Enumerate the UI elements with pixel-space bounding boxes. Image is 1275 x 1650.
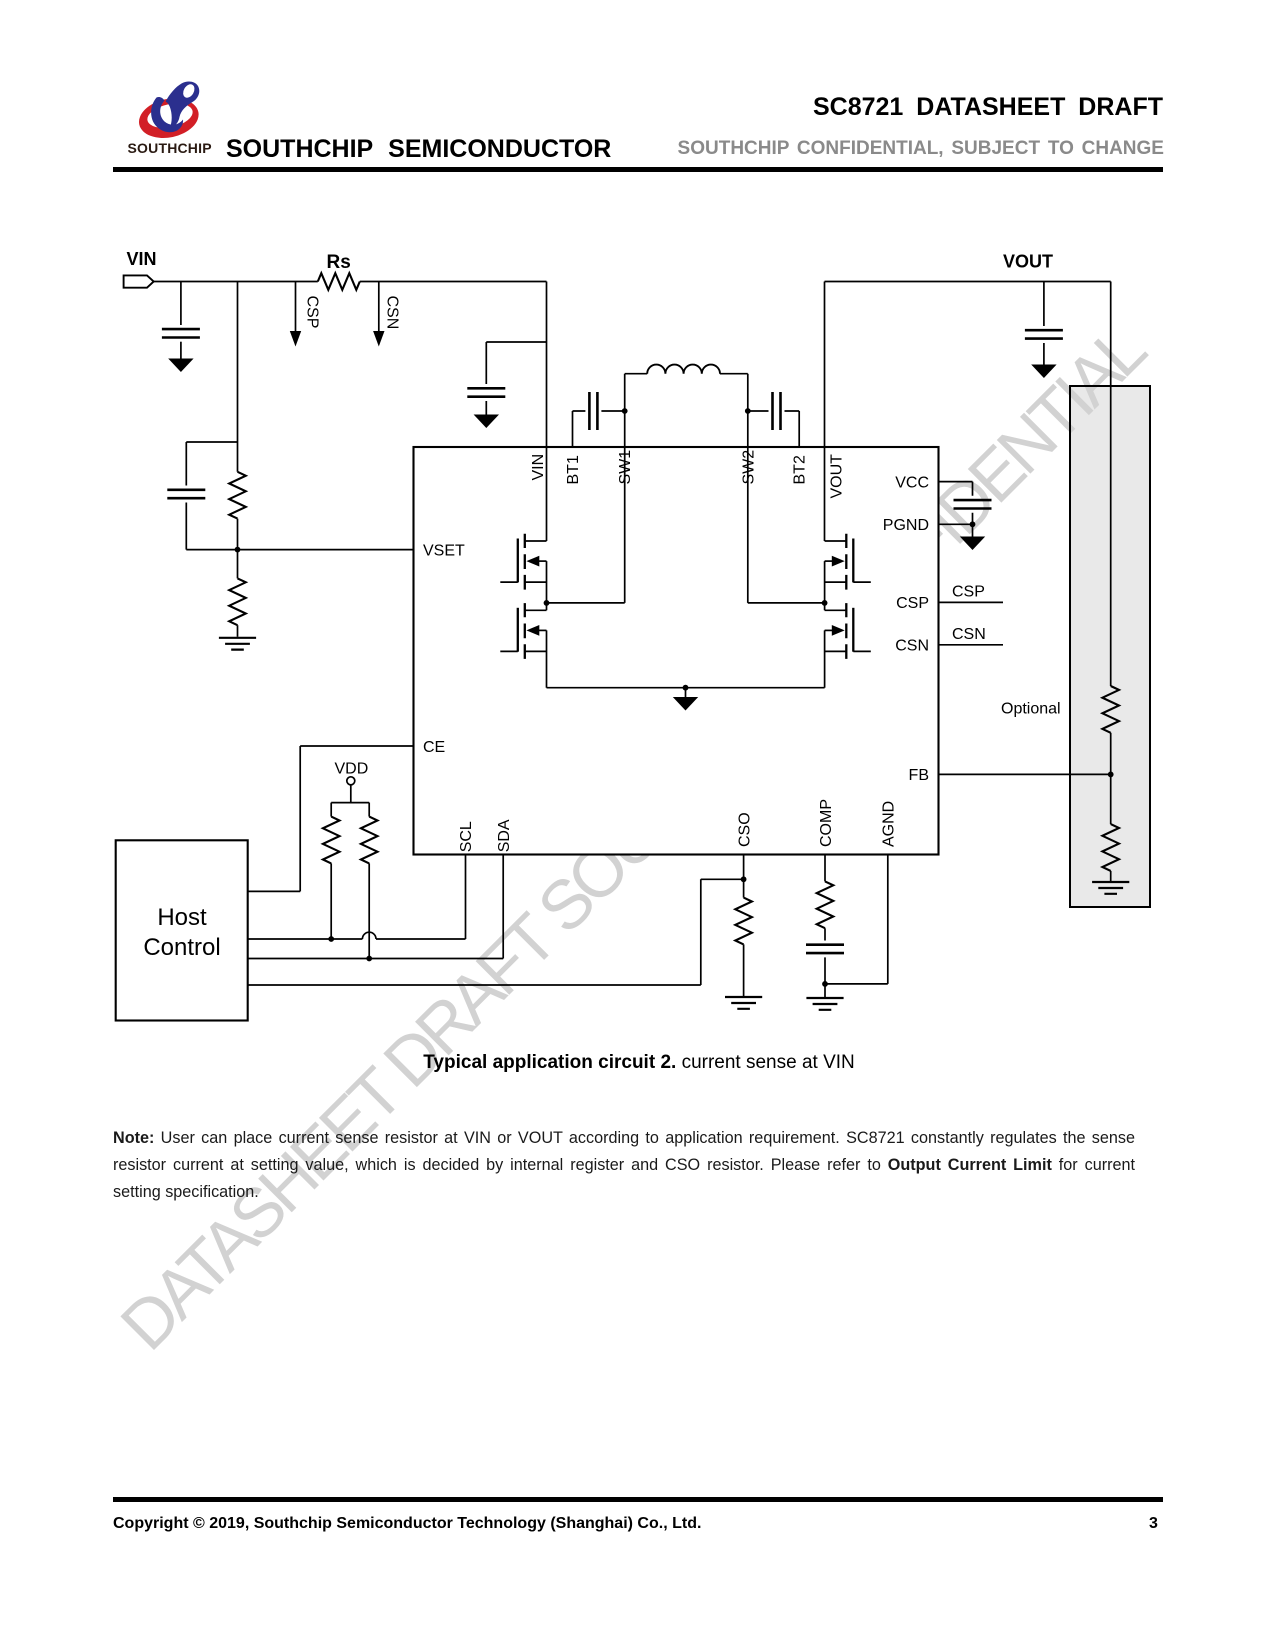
doc title: [0, 93, 1163, 122]
svg-text:VCC: VCC: [895, 474, 929, 491]
svg-text:Rs: Rs: [327, 252, 351, 273]
capacitor CB1: [589, 392, 597, 430]
CSN sense arrow: [378, 282, 380, 332]
figure caption: [0, 1052, 1275, 1074]
wire VIN to IC with decoupling branch: [486, 282, 546, 542]
ground (earth) CSO: [725, 997, 762, 1009]
VIN input terminal: [124, 275, 154, 287]
resistor VSET upper R1: [237, 442, 239, 578]
wire right FET bus: [824, 561, 826, 688]
transistor Q4 (lower right): [825, 609, 847, 611]
wire VCC decouple: [938, 482, 973, 525]
resistor pullup SCL R5: [330, 803, 332, 817]
ground (earth) below R2: [219, 638, 256, 650]
resistor COMP R8: [817, 881, 834, 928]
svg-text:CSN: CSN: [952, 626, 986, 643]
header rule: [113, 167, 1163, 172]
node VSET junction: [235, 547, 241, 553]
capacitor C4 (VCC): [954, 500, 992, 508]
wire CSP stub: [938, 601, 1003, 603]
resistor Rs: [318, 273, 360, 290]
svg-text:CSP: CSP: [896, 595, 929, 612]
svg-text:CSP: CSP: [952, 583, 985, 600]
wire CE: [248, 746, 414, 891]
wire SW2 riser: [747, 374, 749, 447]
ground (arrow) internal: [685, 688, 687, 697]
wire VOUT rail: [825, 282, 1111, 542]
svg-text:SW2: SW2: [740, 450, 757, 485]
node SW2 internal: [748, 447, 825, 603]
svg-text:VDD: VDD: [335, 761, 369, 778]
node SW1 internal: [547, 447, 625, 603]
ground (arrow) for C2: [474, 415, 499, 429]
svg-text:VOUT: VOUT: [829, 454, 846, 499]
company logo emblem: [135, 76, 215, 142]
host control box: [116, 840, 248, 1020]
wire CSN stub: [938, 644, 1003, 646]
svg-text:PGND: PGND: [883, 517, 929, 534]
node FB junction: [1108, 772, 1114, 778]
ground (earth) COMP: [806, 998, 843, 1010]
wire SDA: [248, 855, 504, 959]
svg-text:VIN: VIN: [530, 454, 547, 481]
node VCC/PGND junction: [970, 521, 976, 527]
transistor Q2 (lower left): [525, 609, 547, 611]
svg-text:CSP: CSP: [304, 296, 321, 329]
logo blue crescent drop: [151, 97, 183, 132]
wire BT1 bootstrap: [573, 411, 625, 447]
node SW2/CB2 junction: [745, 408, 751, 414]
svg-text:Control: Control: [143, 934, 220, 961]
node SW1/CB1 junction: [622, 408, 628, 414]
capacitor output C5: [1043, 282, 1045, 365]
wire host to CSO: [248, 879, 744, 985]
wire VSET branch: [186, 282, 413, 550]
svg-text:VOUT: VOUT: [1003, 251, 1053, 271]
svg-text:CSN: CSN: [895, 638, 929, 655]
logo wordmark SOUTHCHIP: [128, 140, 238, 156]
svg-text:VIN: VIN: [127, 249, 157, 269]
wire COMP pin: [824, 855, 826, 882]
capacitor input C1: [180, 282, 182, 326]
note paragraph: [113, 1125, 1135, 1207]
svg-text:Host: Host: [157, 904, 207, 931]
ground (earth) divider: [1092, 882, 1129, 894]
resistor VSET lower R2: [229, 578, 246, 625]
wire VOUT to divider: [1110, 282, 1112, 687]
confidential subtitle: [0, 138, 1164, 160]
svg-text:SDA: SDA: [496, 819, 513, 852]
resistor CSO R7: [735, 898, 752, 945]
IC U1 body: [414, 447, 939, 855]
capacitor CB2: [748, 411, 799, 447]
wire AGND: [825, 855, 888, 984]
ground (arrow) for C5: [1031, 365, 1056, 379]
wire PGND: [938, 523, 973, 525]
footer page number: [1149, 1515, 1158, 1533]
capacitor VSET C3: [167, 490, 205, 498]
wire CSO pin: [743, 855, 745, 898]
footer rule: [113, 1497, 1163, 1502]
node SDA pullup junction: [366, 956, 372, 962]
svg-text:CSN: CSN: [384, 296, 401, 330]
node SCL pullup junction: [328, 936, 334, 942]
svg-text:SCL: SCL: [458, 821, 475, 852]
svg-text:BT2: BT2: [792, 455, 809, 484]
svg-text:COMP: COMP: [818, 799, 835, 847]
inductor L1: [625, 373, 648, 375]
resistor pullup SDA R6: [368, 803, 370, 817]
capacitor COMP C6: [806, 945, 844, 953]
svg-text:AGND: AGND: [881, 801, 898, 847]
svg-text:SW1: SW1: [617, 450, 634, 485]
logo blue ribbon loop: [166, 81, 200, 128]
optional divider box border: [1070, 386, 1150, 907]
wire left FET bus: [546, 561, 548, 688]
grey optional-divider box fill: [1070, 386, 1150, 907]
svg-text:Optional: Optional: [1001, 701, 1061, 718]
ground (arrow) PGND: [972, 524, 974, 536]
company name: [226, 135, 611, 164]
transistor Q1 (upper left): [525, 540, 547, 542]
wire SW1 riser: [624, 374, 626, 447]
footer copyright: [113, 1515, 701, 1533]
ground (arrow) for C1: [168, 359, 193, 373]
capacitor C2 (VIN decouple): [467, 388, 505, 396]
svg-text:FB: FB: [909, 767, 929, 784]
node source rail center: [683, 685, 689, 691]
resistor divider upper R3: [1102, 686, 1119, 733]
CSP sense arrow: [295, 282, 297, 332]
resistor divider lower R4: [1102, 824, 1119, 871]
wire SCL with hop: [248, 855, 466, 940]
node COMP/AGND junction: [822, 981, 828, 987]
wire internal source rail: [547, 687, 825, 689]
wire VIN top rail: [154, 281, 547, 283]
svg-text:CSO: CSO: [736, 812, 753, 847]
svg-text:CE: CE: [423, 739, 445, 756]
wire FB: [938, 773, 1111, 775]
svg-text:BT1: BT1: [565, 455, 582, 484]
logo red swoosh ellipse: [135, 93, 202, 143]
transistor Q3 (upper right): [825, 540, 847, 542]
svg-text:VSET: VSET: [423, 542, 465, 559]
node CSO junction: [741, 876, 747, 882]
